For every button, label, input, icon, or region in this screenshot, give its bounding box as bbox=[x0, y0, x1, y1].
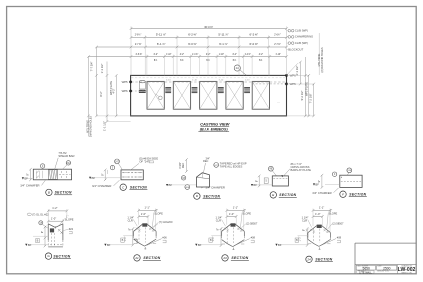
svg-text:7'-7 3/4": 7'-7 3/4" bbox=[90, 62, 94, 72]
svg-text:9": 9" bbox=[217, 228, 220, 230]
svg-text:' ' ': ' ' ' bbox=[277, 102, 280, 105]
svg-text:4B: 4B bbox=[270, 169, 273, 171]
svg-text:DIAMOND HOLES: DIAMOND HOLES bbox=[90, 116, 93, 138]
svg-text:1'-10": 1'-10" bbox=[219, 52, 224, 56]
svg-text:1'-10: 1'-10 bbox=[218, 80, 224, 82]
svg-text:SECTION: SECTION bbox=[55, 191, 72, 195]
svg-text:B.O.: B.O. bbox=[233, 58, 237, 62]
svg-text:CLR: CLR bbox=[216, 218, 221, 222]
svg-text:24: 24 bbox=[306, 257, 311, 261]
svg-text:OF "24T": OF "24T" bbox=[139, 160, 150, 164]
svg-text:B: B bbox=[122, 239, 124, 242]
svg-text:LW-002: LW-002 bbox=[398, 267, 416, 273]
svg-text:REC: REC bbox=[182, 163, 185, 169]
svg-text:CL/B (WP): CL/B (WP) bbox=[295, 29, 308, 33]
svg-text:9": 9" bbox=[101, 174, 104, 176]
svg-text:4'-2": 4'-2" bbox=[259, 52, 263, 56]
svg-text:2500: 2500 bbox=[383, 267, 391, 271]
svg-text:SLOPE: SLOPE bbox=[65, 217, 74, 221]
svg-text:SHEET 1 OF 1: SHEET 1 OF 1 bbox=[401, 273, 412, 275]
svg-text:1'-0": 1'-0" bbox=[229, 212, 234, 216]
svg-text:#22: #22 bbox=[69, 227, 74, 231]
svg-text:1'-10": 1'-10" bbox=[276, 52, 281, 56]
svg-text:SECTION: SECTION bbox=[53, 254, 70, 258]
svg-text:21: 21 bbox=[134, 256, 139, 260]
svg-text:B: B bbox=[210, 239, 212, 242]
svg-text:1'-1 1/2": 1'-1 1/2" bbox=[103, 121, 107, 131]
svg-text:23: 23 bbox=[222, 256, 227, 260]
svg-text:30'-0 ⅜": 30'-0 ⅜" bbox=[204, 25, 213, 29]
svg-text:1'-10: 1'-10 bbox=[166, 80, 172, 82]
svg-text:B.O.: B.O. bbox=[154, 58, 158, 62]
svg-text:BARS AT PLATE: BARS AT PLATE bbox=[291, 168, 312, 172]
svg-text:9": 9" bbox=[303, 229, 306, 231]
svg-text:3/4" CHAMFER: 3/4" CHAMFER bbox=[92, 184, 111, 188]
svg-text:9": 9" bbox=[41, 231, 44, 233]
svg-text:DESCRIPTION: DESCRIPTION bbox=[377, 271, 389, 273]
svg-text:202: 202 bbox=[66, 162, 71, 165]
svg-text:B.O.: B.O. bbox=[259, 58, 263, 62]
svg-text:BF: BF bbox=[169, 183, 173, 187]
svg-text:TAPE ALL EDGES: TAPE ALL EDGES bbox=[220, 164, 243, 168]
svg-text:2'-7 ⅜": 2'-7 ⅜" bbox=[135, 42, 142, 46]
svg-text:(7) GL GL #22: (7) GL GL #22 bbox=[32, 212, 49, 216]
svg-text:SLOPE: SLOPE bbox=[154, 211, 163, 215]
svg-text:2'-6 ⅜": 2'-6 ⅜" bbox=[136, 52, 143, 56]
svg-text:1'-2": 1'-2" bbox=[52, 206, 57, 210]
svg-text:3/4" CHAMFER: 3/4" CHAMFER bbox=[20, 184, 39, 188]
svg-text:1B: 1B bbox=[182, 178, 185, 180]
svg-text:1'-0": 1'-0" bbox=[141, 212, 146, 216]
svg-text:2'-1 1/2": 2'-1 1/2" bbox=[295, 66, 299, 76]
svg-text:(2) 58507: (2) 58507 bbox=[246, 222, 258, 226]
svg-text:9": 9" bbox=[318, 180, 321, 182]
svg-text:SECTION: SECTION bbox=[203, 194, 220, 198]
svg-text:SECTION: SECTION bbox=[349, 192, 366, 196]
svg-text:1'-10: 1'-10 bbox=[245, 80, 251, 82]
svg-text:1'-4 ⅝": 1'-4 ⅝" bbox=[192, 52, 198, 56]
svg-text:SECTION: SECTION bbox=[130, 185, 147, 189]
svg-text:WP5 PLATE: WP5 PLATE bbox=[305, 82, 308, 96]
svg-text:BLOCKOUT: BLOCKOUT bbox=[288, 47, 303, 51]
svg-text:6'-0 ⅝": 6'-0 ⅝" bbox=[250, 42, 259, 46]
svg-text:1'-10: 1'-10 bbox=[192, 80, 198, 82]
svg-text:4'-2": 4'-2" bbox=[180, 52, 184, 56]
svg-text:B.O.: B.O. bbox=[180, 58, 184, 62]
svg-text:2'-6 ¼": 2'-6 ¼" bbox=[135, 33, 141, 37]
svg-text:6'-0 ⅝": 6'-0 ⅝" bbox=[188, 42, 197, 46]
svg-text:#06: #06 bbox=[162, 236, 167, 240]
svg-text:1'-0": 1'-0" bbox=[51, 216, 56, 220]
svg-text:SLOPE: SLOPE bbox=[242, 211, 251, 215]
svg-text:1'-3": 1'-3" bbox=[125, 237, 127, 242]
svg-text:1'-0": 1'-0" bbox=[315, 212, 320, 216]
svg-text:B: B bbox=[48, 191, 50, 195]
svg-text:1'-1": 1'-1" bbox=[319, 205, 324, 209]
svg-text:SLOPE: SLOPE bbox=[329, 211, 338, 215]
svg-text:SHEAR BAR: SHEAR BAR bbox=[58, 154, 74, 158]
svg-text:24B: 24B bbox=[348, 170, 352, 172]
svg-text:9": 9" bbox=[255, 180, 258, 182]
svg-text:CHAMFERING: CHAMFERING bbox=[295, 35, 313, 39]
svg-text:WP6: WP6 bbox=[122, 89, 128, 93]
svg-text:4'-2": 4'-2" bbox=[154, 52, 158, 56]
svg-text:SECTION: SECTION bbox=[279, 193, 296, 197]
svg-text:5'-11 ⅞": 5'-11 ⅞" bbox=[218, 33, 228, 37]
svg-text:6'-1 ⅞": 6'-1 ⅞" bbox=[219, 42, 228, 46]
svg-text:1'-1": 1'-1" bbox=[145, 205, 150, 209]
svg-text:2A: 2A bbox=[236, 66, 240, 70]
svg-text:CLR: CLR bbox=[302, 218, 307, 222]
svg-text:B: B bbox=[296, 239, 298, 242]
svg-text:8'-2": 8'-2" bbox=[99, 91, 103, 96]
svg-text:(7) GI/G200: (7) GI/G200 bbox=[159, 220, 173, 224]
svg-text:#08: #08 bbox=[337, 236, 342, 240]
svg-text:(2) 58507: (2) 58507 bbox=[332, 222, 344, 226]
svg-text:9": 9" bbox=[128, 228, 131, 230]
svg-text:6'-2 ⅜": 6'-2 ⅜" bbox=[188, 33, 197, 37]
svg-text:2'-6 ¼": 2'-6 ¼" bbox=[274, 33, 280, 37]
svg-text:6'-2 ⅜": 6'-2 ⅜" bbox=[250, 33, 259, 37]
svg-text:SECTION: SECTION bbox=[231, 256, 248, 260]
svg-text:BF: BF bbox=[253, 183, 257, 187]
svg-text:(2) DIAMOND HOLES: (2) DIAMOND HOLES bbox=[321, 47, 324, 72]
svg-text:LITE WALL: LITE WALL bbox=[359, 271, 372, 274]
svg-text:WP5: WP5 bbox=[122, 80, 128, 84]
svg-text:F: F bbox=[342, 192, 344, 196]
svg-text:24T: 24T bbox=[115, 161, 120, 163]
svg-text:9'-2 1/2": 9'-2 1/2" bbox=[300, 91, 304, 101]
svg-text:B: B bbox=[37, 240, 39, 243]
svg-text:4'-2": 4'-2" bbox=[113, 88, 116, 93]
svg-text:40B: 40B bbox=[186, 187, 190, 189]
svg-text:1'-10": 1'-10" bbox=[166, 52, 171, 56]
svg-text:CASTING VIEW: CASTING VIEW bbox=[200, 122, 231, 127]
svg-text:9": 9" bbox=[27, 173, 30, 175]
svg-text:CL/B (WP): CL/B (WP) bbox=[295, 41, 308, 45]
svg-text:1'-4 ⅝": 1'-4 ⅝" bbox=[245, 52, 251, 56]
svg-text:5'-11 ⅞": 5'-11 ⅞" bbox=[156, 33, 166, 37]
svg-text:REC: REC bbox=[203, 160, 209, 163]
svg-text:6'-1 ⅞": 6'-1 ⅞" bbox=[157, 42, 166, 46]
svg-text:1'-1 1/2": 1'-1 1/2" bbox=[100, 64, 104, 74]
svg-text:B.O.: B.O. bbox=[206, 58, 210, 62]
svg-text:3/4" CHAMFER: 3/4" CHAMFER bbox=[206, 186, 225, 190]
svg-text:4'-2": 4'-2" bbox=[232, 52, 236, 56]
svg-text:SECTION: SECTION bbox=[143, 256, 160, 260]
svg-text:7'-2 1/8": 7'-2 1/8" bbox=[309, 94, 313, 104]
svg-text:CLR: CLR bbox=[128, 218, 133, 222]
svg-text:5650: 5650 bbox=[363, 267, 371, 271]
svg-text:SECTION: SECTION bbox=[315, 258, 332, 262]
svg-text:1'-3": 1'-3" bbox=[299, 237, 301, 242]
svg-text:3/4" CHAMFER: 3/4" CHAMFER bbox=[312, 191, 331, 195]
svg-text:1'-1": 1'-1" bbox=[233, 205, 238, 209]
svg-text:1'-3": 1'-3" bbox=[213, 237, 215, 242]
svg-text:(B.I.F. EMBEDS): (B.I.F. EMBEDS) bbox=[200, 128, 229, 132]
svg-text:2'-7 ⅜": 2'-7 ⅜" bbox=[274, 42, 281, 46]
svg-text:#08: #08 bbox=[251, 236, 256, 240]
